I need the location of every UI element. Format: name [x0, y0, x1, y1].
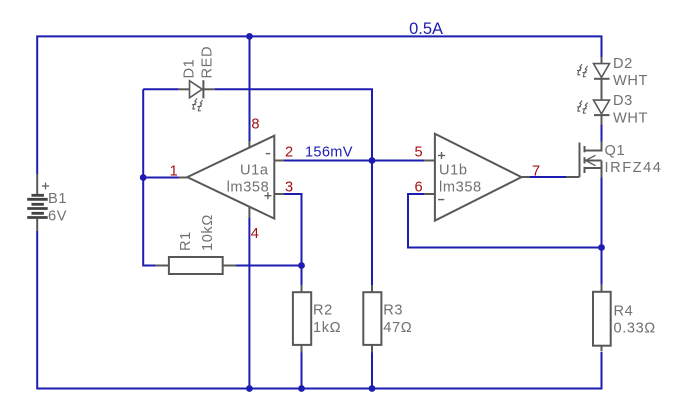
wire D3 cathode to Q1 drain: [601, 124, 603, 141]
op-amp U1a pin 2 stub: [274, 160, 284, 162]
LED D3 cathode bar: [594, 114, 610, 116]
op-amp U1a pin 8 stub: [248, 141, 250, 148]
junction node Q1 source/R4/pin6: [598, 244, 605, 251]
wire Q1 source down to R4 top: [601, 178, 603, 285]
wire U1a pin4 to bottom rail: [248, 218, 250, 389]
junction node pin1/D1/R1: [140, 174, 147, 181]
wire D1 cathode to node over to R3 column: [215, 89, 372, 160]
svg-text:D1: D1: [182, 59, 198, 79]
LED D3 triangle: [594, 100, 610, 114]
svg-text:R4: R4: [614, 303, 634, 319]
resistor R1 left stub: [156, 265, 169, 267]
svg-text:0.5A: 0.5A: [409, 20, 443, 38]
wire R3 bottom to rail: [371, 352, 373, 389]
LED D1 triangle: [190, 81, 203, 98]
svg-text:lm358: lm358: [439, 180, 482, 196]
transistor Q1 gate bar: [579, 143, 581, 178]
op-amp U1a minus mark: [266, 153, 271, 155]
LED D3 light arrow 1: [577, 101, 582, 112]
wire top rail from battery + to right rail: [37, 36, 601, 174]
op-amp U1a body (mirrored, output left): [187, 136, 274, 219]
wire U1a pin2 to U1b pin5: [284, 160, 424, 162]
wire R1 right to R2 top node: [236, 265, 302, 267]
svg-text:10kΩ: 10kΩ: [200, 214, 216, 251]
svg-text:D2: D2: [613, 56, 633, 72]
LED D1 cathode lead: [203, 88, 214, 90]
svg-text:R3: R3: [383, 303, 403, 319]
battery B1 bottom stub: [36, 219, 38, 231]
svg-text:U1a: U1a: [240, 162, 269, 178]
wire R3 top from node: [371, 161, 373, 286]
resistor R4 bottom stub: [601, 346, 603, 352]
junction top rail: [246, 33, 253, 40]
LED D1 light arrow 1: [192, 98, 197, 109]
LED D3 cathode stub: [601, 115, 603, 124]
transistor Q1 body arrow: [586, 155, 596, 165]
LED D1 anode lead: [179, 88, 190, 90]
LED D2 light arrow 1: [577, 64, 582, 75]
wire U1b pin6 feedback loop to Q1 source node: [408, 194, 602, 248]
wire center vertical to U1a pin8: [249, 36, 251, 141]
resistor R3 body: [363, 292, 381, 345]
wire bottom rail and left rail: [37, 231, 601, 389]
op-amp U1b minus mark: [438, 199, 444, 201]
svg-text:8: 8: [251, 117, 260, 133]
resistor R2 body: [293, 292, 311, 345]
resistor R4 top stub: [601, 285, 603, 292]
svg-text:R1: R1: [178, 231, 194, 251]
op-amp U1a plus mark: [264, 192, 271, 199]
svg-text:B1: B1: [48, 191, 67, 207]
svg-text:47Ω: 47Ω: [383, 320, 412, 336]
junction node R1/R2/pin3: [298, 262, 305, 269]
svg-text:4: 4: [251, 226, 260, 242]
junction bottom rail R2: [298, 385, 305, 392]
op-amp U1b pin 6 stub: [424, 193, 435, 195]
LED D1 light arrow 2: [197, 100, 202, 111]
transistor Q1 channel dashes: [584, 146, 586, 173]
svg-text:2: 2: [285, 145, 294, 161]
svg-text:5: 5: [415, 145, 424, 161]
junction bottom rail R3: [369, 385, 376, 392]
svg-text:1: 1: [170, 164, 179, 180]
wire R2 bottom to rail: [301, 352, 303, 389]
svg-text:lm358: lm358: [227, 180, 270, 196]
svg-text:R2: R2: [313, 303, 333, 319]
op-amp U1a pin 4 stub: [248, 207, 250, 218]
wire U1a pin3 down to R1/R2 node: [284, 194, 302, 285]
transistor Q1 source vertical: [601, 161, 603, 178]
resistor R1 body: [169, 257, 223, 274]
svg-text:IRFZ44: IRFZ44: [605, 160, 663, 176]
svg-text:0.33Ω: 0.33Ω: [614, 321, 656, 337]
svg-text:156mV: 156mV: [305, 145, 353, 161]
svg-text:1kΩ: 1kΩ: [313, 320, 341, 336]
transistor Q1 body line: [586, 160, 602, 162]
svg-text:WHT: WHT: [613, 73, 648, 89]
op-amp U1b pin 5 stub: [424, 160, 435, 162]
op-amp U1b pin 7 stub: [521, 176, 530, 178]
resistor R2 bottom stub: [301, 345, 303, 353]
op-amp U1b plus mark: [438, 152, 445, 159]
wire U1b pin7 to Q1 gate: [530, 176, 566, 178]
LED D2 triangle: [594, 64, 610, 78]
wire D1 anode branch: [143, 88, 179, 90]
op-amp U1a pin 3 stub: [274, 193, 284, 195]
LED D2 anode stub: [601, 57, 603, 64]
resistor R4 body: [593, 292, 611, 346]
junction node pin2/pin5/R3: [369, 157, 376, 164]
wire U1a pin1 output: [143, 177, 178, 179]
battery plus sign: [42, 183, 49, 190]
battery B1 top stub: [36, 174, 38, 194]
transistor Q1 gate lead: [566, 176, 580, 178]
transistor Q1 drain connection: [585, 142, 602, 151]
junction bottom rail pin4: [246, 385, 253, 392]
svg-text:6: 6: [415, 180, 424, 196]
wire left vertical node A down to R1: [143, 89, 155, 265]
svg-text:D3: D3: [613, 93, 633, 109]
svg-text:3: 3: [285, 180, 294, 196]
LED D3 light arrow 2: [582, 103, 587, 114]
LED D2 cathode bar: [594, 78, 610, 80]
LED D2 light arrow 2: [582, 66, 587, 77]
svg-text:7: 7: [532, 164, 541, 180]
svg-text:WHT: WHT: [613, 110, 648, 126]
svg-text:Q1: Q1: [605, 143, 626, 159]
resistor R3 top stub: [371, 285, 373, 292]
resistor R1 right stub: [223, 265, 236, 267]
svg-text:6V: 6V: [48, 209, 67, 225]
LED D1 cathode bar: [202, 80, 204, 98]
op-amp U1a pin 1 stub: [179, 177, 188, 179]
resistor R3 bottom stub: [371, 345, 373, 353]
battery B1 plates: [27, 195, 48, 217]
svg-text:RED: RED: [200, 46, 216, 79]
transistor Q1 source connection: [585, 167, 602, 169]
svg-text:U1b: U1b: [439, 162, 468, 178]
resistor R2 top stub: [301, 285, 303, 292]
LED D2 to D3 link: [601, 79, 603, 100]
op-amp U1b body: [435, 134, 522, 221]
